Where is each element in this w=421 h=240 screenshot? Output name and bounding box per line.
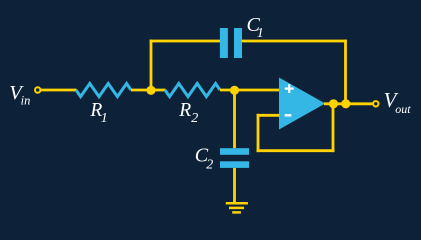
svg-text:2: 2 (191, 111, 198, 126)
node junction dot at C1 branch join (341, 99, 350, 108)
node junction dot at R2-C2 (230, 86, 239, 95)
wire top rail right segment from C1 (242, 40, 347, 43)
wire top rail left segment to C1 (150, 40, 220, 43)
wire minus input left segment (257, 114, 280, 117)
resistor R2 (165, 84, 220, 97)
wire feedback right vertical to output (332, 104, 335, 152)
node junction dot at op-amp output (329, 99, 338, 108)
label C2 (195, 145, 214, 173)
svg-text:2: 2 (206, 158, 213, 173)
op-amp minus pin mark (285, 114, 292, 116)
capacitor C2 (220, 148, 249, 168)
label C1 (247, 14, 264, 41)
op-amp plus pin mark (285, 84, 294, 93)
wire input lead to R1 (41, 89, 77, 92)
svg-text:R: R (178, 100, 191, 121)
svg-text:out: out (395, 102, 411, 116)
label Vout (384, 88, 412, 116)
wire C2 to ground (233, 168, 236, 202)
label R1 (89, 100, 107, 126)
wire R2 to op-amp + input (220, 89, 280, 92)
input terminal circle (35, 87, 40, 92)
resistor R1 (76, 84, 131, 97)
label Vin (9, 82, 30, 108)
op-amp U1 (279, 78, 325, 130)
ground (226, 203, 248, 212)
wire node B down to C2 (233, 90, 236, 148)
svg-text:1: 1 (257, 26, 264, 41)
svg-text:1: 1 (101, 111, 108, 126)
wire op-amp output to terminal (324, 102, 373, 105)
wire node A up to top rail (150, 40, 153, 91)
label R2 (178, 100, 198, 126)
wire feedback bottom horizontal (257, 149, 335, 152)
node junction dot at R1-R2 (146, 86, 155, 95)
wire feedback left vertical (257, 114, 260, 152)
wire down from top rail to output node (344, 40, 347, 104)
wire R1 to R2 (131, 89, 166, 92)
svg-text:in: in (21, 94, 31, 108)
output terminal circle (373, 101, 378, 106)
capacitor C1 (220, 28, 242, 58)
